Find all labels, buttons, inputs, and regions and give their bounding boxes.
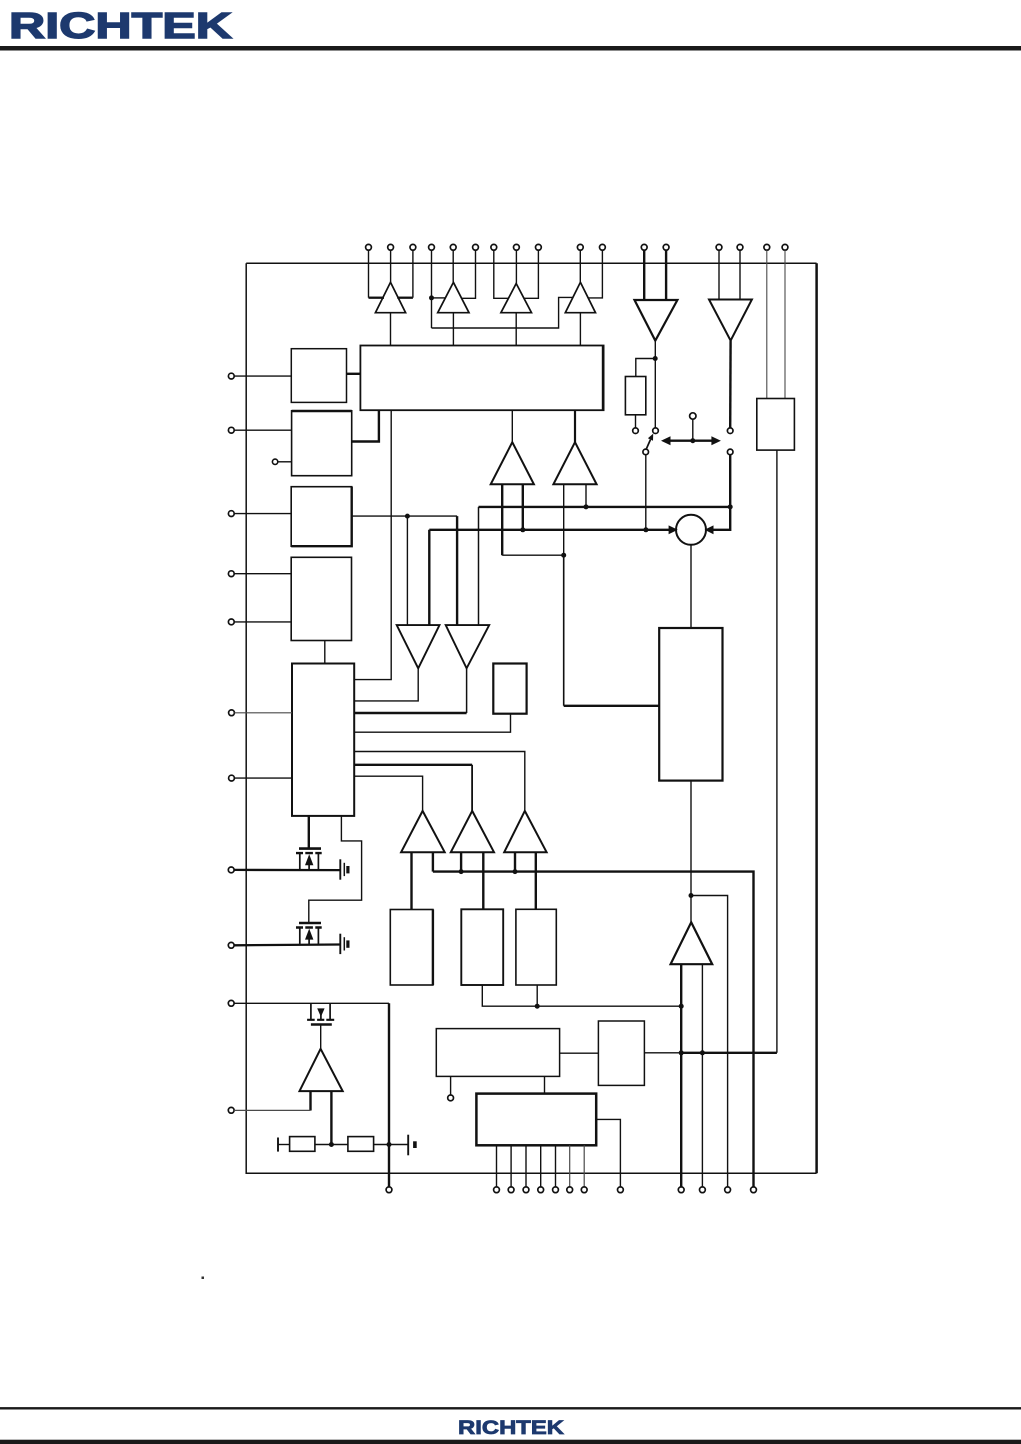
svg-text:RICHTEK: RICHTEK [9, 5, 232, 46]
svg-text:RICHTEK: RICHTEK [458, 1417, 564, 1439]
